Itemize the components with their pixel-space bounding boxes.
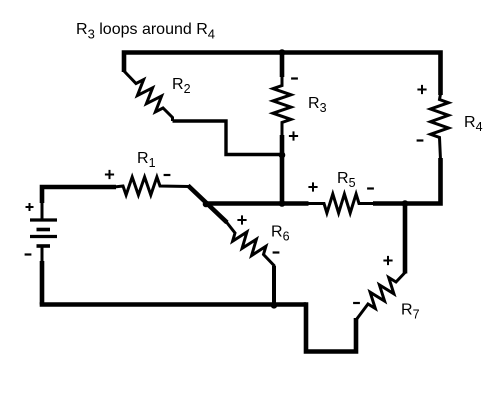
resistor R1 (horizontal): [114, 177, 189, 195]
R5 plus sign: [308, 182, 317, 191]
wire: bottom jog (down-right-up): [306, 302, 356, 351]
battery positive sign: [26, 203, 34, 211]
battery B1 plates: [30, 220, 57, 246]
svg-text:R3 loops around R4: R3 loops around R4: [76, 21, 215, 42]
R3 plus sign: [289, 131, 298, 140]
wire: middle bus right segment up to R4 bottom: [373, 158, 441, 204]
resistor R3 (vertical): [273, 76, 291, 137]
label R2: [172, 76, 191, 96]
label R3: [308, 95, 327, 115]
R7 plus sign: [383, 256, 392, 265]
label R6: [271, 224, 290, 244]
resistor R2 (diagonal): [124, 71, 173, 121]
R4 minus sign: [417, 139, 424, 141]
resistor R4 (vertical): [431, 94, 449, 160]
wire: R7 top lead up to middle bus: [403, 203, 408, 274]
svg-text:R6: R6: [271, 224, 290, 244]
R5 minus sign: [367, 187, 374, 189]
R3 minus sign: [291, 77, 298, 79]
svg-text:R7: R7: [401, 302, 420, 322]
wire: thick diagonal from R1 to branch node: [188, 186, 227, 223]
R4 plus sign: [417, 85, 426, 94]
node: bottom bus / R6 junction: [271, 302, 278, 309]
resistor R7 (diagonal): [356, 273, 405, 321]
R1 minus sign: [164, 174, 171, 176]
wire: center vertical from R3-bottom node to middle bus: [280, 155, 285, 204]
resistor R5 (horizontal): [307, 194, 375, 213]
node: middle bus / R7 branch junction: [402, 200, 409, 207]
wire: R3 top lead (thick stub): [280, 51, 285, 78]
wire: middle bus left segment: [206, 201, 309, 206]
R6 minus sign: [273, 251, 280, 253]
svg-text:R1: R1: [137, 150, 156, 170]
label R1: [137, 150, 156, 170]
node: R3 bottom / R2 loop junction: [279, 152, 286, 159]
wire: bottom bus from battery to jog: [40, 302, 306, 307]
label R4: [464, 114, 483, 134]
node: middle bus / center vertical junction: [279, 200, 286, 207]
wire: R3 bottom lead: [280, 135, 285, 156]
node: junction of top bus and R3 top: [279, 49, 286, 56]
svg-text:R5: R5: [337, 170, 356, 190]
wire: battery bottom lead: [41, 246, 44, 305]
wire: R2 bottom to R3 bottom node: [173, 121, 283, 155]
node: middle bus left junction (R1/R6 branch point): [203, 201, 210, 208]
svg-text:R2: R2: [172, 76, 191, 96]
wire: top bus from R2 corner to R4 corner: [124, 53, 441, 96]
caption text: R3 loops around R4: [76, 21, 215, 42]
wire: R6 bottom lead down to bottom bus: [272, 266, 276, 306]
R1 plus sign: [105, 170, 114, 179]
battery negative sign: [25, 253, 32, 255]
R6 plus sign: [237, 215, 246, 224]
battery B1 top lead and wire to R1: [42, 187, 116, 219]
label R7: [401, 302, 420, 322]
resistor R6 (diagonal): [226, 222, 274, 269]
svg-text:R4: R4: [464, 114, 483, 134]
R7 minus sign: [353, 302, 360, 304]
svg-text:R3: R3: [308, 95, 327, 115]
label R5: [337, 170, 356, 190]
